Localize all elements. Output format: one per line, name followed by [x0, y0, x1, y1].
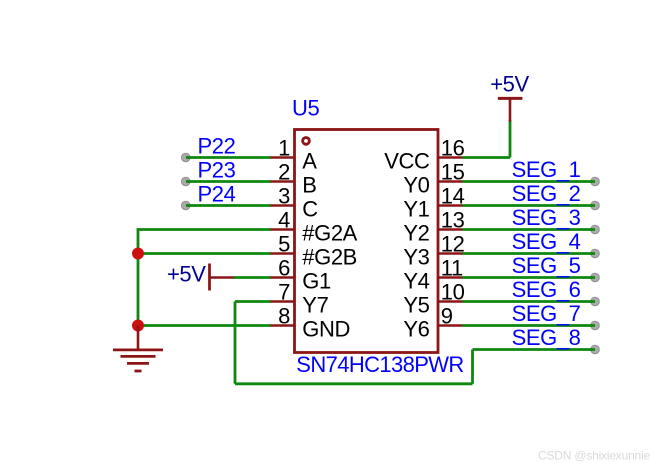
svg-text:+5V: +5V: [167, 262, 206, 287]
svg-text:SEG_2: SEG_2: [512, 181, 581, 206]
wire P22 to pin 1: [186, 156, 271, 159]
U5 pin 6 (G1): [270, 256, 331, 294]
wire pin 5 #G2B to bus: [138, 252, 271, 255]
svg-text:Y5: Y5: [403, 292, 429, 317]
svg-text:1: 1: [278, 136, 290, 161]
terminal P22: [181, 153, 190, 162]
svg-text:Y1: Y1: [403, 196, 429, 221]
ground: [113, 326, 163, 372]
wire P24 to pin 3: [186, 204, 271, 207]
svg-text:SEG_4: SEG_4: [512, 229, 581, 254]
U5 pin 9 (Y6): [403, 304, 462, 342]
wire SEG_4 from pin 12: [463, 252, 596, 255]
svg-text:13: 13: [441, 208, 465, 233]
terminal P23: [181, 177, 190, 186]
wire P23 to pin 2: [186, 180, 271, 183]
svg-text:SN74HC138PWR: SN74HC138PWR: [296, 352, 463, 377]
svg-text:#G2B: #G2B: [302, 244, 357, 269]
svg-text:C: C: [302, 196, 318, 221]
svg-text:Y0: Y0: [403, 172, 429, 197]
terminal SEG_4: [591, 249, 600, 258]
svg-text:+5V: +5V: [490, 72, 529, 97]
terminal SEG_8: [591, 345, 600, 354]
wire pin 4 #G2A to bus: [137, 228, 271, 231]
wire SEG_1 from pin 15: [463, 180, 596, 183]
U5 pin 3 (C): [270, 184, 319, 222]
svg-text:3: 3: [278, 184, 290, 209]
junction at pin 8 row: [132, 320, 144, 332]
U5 pin 7 (Y7): [270, 280, 329, 318]
U5 pin 16 (VCC): [384, 136, 464, 174]
svg-text:VCC: VCC: [384, 148, 430, 173]
wire SEG_5 from pin 11: [463, 276, 596, 279]
svg-text:SEG_7: SEG_7: [512, 301, 581, 326]
wire pin 8 GND to bus: [138, 324, 271, 327]
svg-text:Y4: Y4: [403, 268, 429, 293]
wire SEG_8 horizontal: [473, 348, 596, 351]
svg-text:#G2A: #G2A: [302, 220, 357, 245]
wire VCC vertical up: [509, 121, 512, 158]
wire Y7 horizontal from pin 7: [235, 300, 271, 303]
svg-text:SEG_6: SEG_6: [512, 277, 581, 302]
terminal SEG_3: [591, 225, 600, 234]
svg-text:5: 5: [278, 232, 290, 257]
svg-text:10: 10: [441, 280, 465, 305]
U5 pin 13 (Y2): [403, 208, 464, 246]
U5 pin 4 (#G2A): [270, 208, 358, 246]
power +5V symbol (at G1): [210, 264, 234, 291]
U5 pin 1 (A): [270, 136, 318, 174]
wire Y7 bottom horizontal: [235, 382, 473, 385]
wire SEG_3 from pin 13: [463, 228, 596, 231]
wire SEG_6 from pin 10: [463, 300, 596, 303]
wire G1 to +5V: [234, 276, 271, 279]
svg-text:SEG_3: SEG_3: [512, 205, 581, 230]
svg-text:SEG_8: SEG_8: [512, 325, 581, 350]
svg-text:Y2: Y2: [403, 220, 429, 245]
svg-text:B: B: [302, 172, 316, 197]
U5 pin 11 (Y4): [403, 256, 463, 294]
svg-text:16: 16: [441, 136, 465, 161]
svg-text:9: 9: [441, 304, 453, 329]
svg-text:12: 12: [441, 232, 465, 257]
svg-text:4: 4: [278, 208, 290, 233]
junction at pin 5 row: [132, 248, 144, 260]
svg-text:A: A: [302, 148, 317, 173]
terminal SEG_1: [591, 177, 600, 186]
svg-text:P22: P22: [198, 134, 236, 159]
wire SEG_2 from pin 14: [463, 204, 596, 207]
svg-text:P24: P24: [198, 182, 236, 207]
svg-text:8: 8: [278, 304, 290, 329]
chip U5 body (SN74HC138PWR decoder outline): [295, 130, 439, 353]
wire bus vertical (G2A/G2B/GND net): [137, 230, 140, 326]
terminal P24: [181, 201, 190, 210]
svg-text:6: 6: [278, 256, 290, 281]
svg-text:SEG_1: SEG_1: [512, 157, 581, 182]
svg-text:Y6: Y6: [403, 316, 429, 341]
svg-text:14: 14: [441, 184, 465, 209]
svg-text:CSDN @shixiexunnie: CSDN @shixiexunnie: [538, 449, 650, 463]
U5 pin 15 (Y0): [403, 160, 464, 198]
U5 pin 14 (Y1): [403, 184, 464, 222]
svg-text:11: 11: [441, 256, 463, 281]
wire Y7 vertical up to SEG_8 row: [471, 350, 474, 384]
wire Y7 vertical down: [234, 302, 237, 384]
svg-text:P23: P23: [198, 158, 236, 183]
wire SEG_7 from pin 9: [463, 324, 596, 327]
wire VCC pin 16 horizontal: [463, 156, 511, 159]
U5 pin 12 (Y3): [403, 232, 464, 270]
U5 pin 10 (Y5): [403, 280, 464, 318]
power +5V symbol (at VCC): [498, 98, 523, 121]
svg-text:GND: GND: [302, 316, 350, 341]
U5 pin-1 indicator circle: [303, 138, 310, 145]
svg-text:Y3: Y3: [403, 244, 429, 269]
svg-text:Y7: Y7: [302, 292, 328, 317]
svg-text:15: 15: [441, 160, 465, 185]
U5 pin 8 (GND): [270, 304, 350, 342]
svg-text:7: 7: [278, 280, 290, 305]
U5 pin 5 (#G2B): [270, 232, 357, 270]
terminal SEG_2: [591, 201, 600, 210]
svg-text:2: 2: [278, 160, 290, 185]
U5 pin 2 (B): [270, 160, 317, 198]
svg-text:G1: G1: [302, 268, 331, 293]
svg-text:SEG_5: SEG_5: [512, 253, 581, 278]
svg-text:U5: U5: [292, 95, 319, 120]
terminal SEG_7: [591, 321, 600, 330]
terminal SEG_6: [591, 297, 600, 306]
terminal SEG_5: [591, 273, 600, 282]
